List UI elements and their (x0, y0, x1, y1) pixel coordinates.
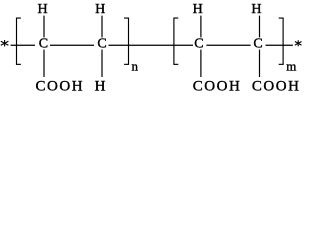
wire: vertical bond C2 to H (101, 50, 103, 77)
left end-group asterisk (1, 40, 9, 47)
left bracket of m repeat unit (174, 18, 178, 65)
svg-text:m: m (286, 59, 296, 74)
right bracket of m repeat unit (279, 18, 283, 65)
wire: bond C4 to right asterisk (266, 44, 293, 46)
right end-group asterisk (295, 40, 302, 46)
left bracket of n repeat unit (17, 18, 21, 65)
wire: bond from left asterisk to C1 (11, 44, 35, 46)
svg-text:COOH: COOH (193, 78, 242, 94)
svg-text:C: C (97, 37, 106, 52)
svg-text:C: C (39, 37, 48, 52)
wire: vertical bond H to C3 (200, 16, 202, 38)
svg-text:C: C (253, 37, 262, 52)
wire: bond C3 to C4 (206, 44, 250, 46)
polymer structure diagram: poly(acrylic acid)-block-poly(maleic/acrylic acid) repeat units (0, 0, 304, 94)
svg-text:H: H (251, 2, 261, 17)
svg-text:n: n (132, 59, 139, 74)
wire: vertical bond C4 to COOH (259, 50, 261, 77)
svg-text:H: H (95, 2, 105, 17)
wire: vertical bond H to C4 (259, 16, 261, 38)
right bracket of n repeat unit (124, 18, 128, 65)
wire: bond C2 through brackets to C3 (109, 44, 194, 46)
wire: vertical bond C3 to COOH (200, 50, 202, 77)
svg-text:H: H (37, 2, 47, 17)
wire: bond C1 to C2 (50, 44, 94, 46)
wire: vertical bond H to C2 (101, 16, 103, 38)
svg-text:H: H (193, 2, 203, 17)
wire: vertical bond H to C1 (43, 16, 45, 38)
wire: vertical bond C1 to COOH (43, 50, 45, 77)
svg-text:COOH: COOH (35, 78, 84, 94)
svg-text:H: H (95, 78, 106, 94)
svg-text:C: C (194, 37, 203, 52)
svg-text:COOH: COOH (252, 78, 301, 94)
